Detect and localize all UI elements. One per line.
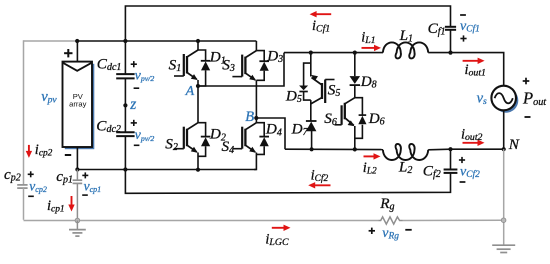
diode D3 bbox=[259, 60, 269, 62]
wire Cdc chain upper bbox=[124, 41, 126, 74]
wire cp1 branch lower bbox=[76, 183, 78, 220]
wire L2 to Cf2 node bbox=[428, 148, 450, 151]
wire Cf1 node to vs bbox=[451, 53, 504, 86]
label cp1 minus bbox=[82, 194, 88, 196]
wire top outer loop (iCf1 path) bbox=[125, 6, 450, 41]
label vs minus bbox=[525, 116, 531, 118]
arrow iCf2 bbox=[314, 184, 331, 186]
wire D3 branch bbox=[256, 51, 264, 62]
label PV plus bbox=[64, 52, 72, 54]
capacitor Cdc1 bbox=[116, 73, 134, 75]
diode D6 bbox=[359, 114, 367, 116]
wire Cdc2 to bottom bus bbox=[124, 136, 126, 169]
label Cf2 plus bbox=[459, 159, 465, 161]
wire branch1 mid bbox=[310, 100, 312, 121]
wire gray left rail lower bbox=[23, 188, 25, 220]
wire S3 emitter to B bbox=[255, 80, 257, 118]
label cp1 plus bbox=[82, 174, 88, 176]
arrow icp1 bbox=[71, 196, 73, 206]
node Cdc chain top junction bbox=[123, 39, 127, 43]
wire PV- terminal bbox=[76, 147, 78, 170]
arrow iCf1 bbox=[315, 13, 331, 15]
diode D5 bbox=[299, 86, 308, 91]
transistor S2 bbox=[183, 127, 185, 149]
wire D4 branch bbox=[256, 123, 264, 137]
transistor S3 bbox=[241, 55, 243, 77]
transistor S5 bbox=[321, 83, 323, 99]
PV array shadow bbox=[65, 64, 95, 149]
wire branch2 top stub bbox=[354, 53, 356, 77]
diode D8 bbox=[350, 76, 361, 84]
wire DC+ bus bbox=[77, 40, 256, 42]
wire S3 collector bbox=[255, 41, 257, 51]
inductor L1 bbox=[383, 42, 428, 58]
node z bbox=[123, 103, 127, 107]
node S1 collector junction bbox=[196, 39, 200, 43]
wire branch1 bottom stub bbox=[311, 131, 313, 150]
label Cdc2 minus bbox=[134, 144, 140, 146]
wire D1 branch bbox=[198, 50, 206, 61]
wire L1 to Cf1 node bbox=[428, 52, 450, 54]
wire B to bypass lower rail bbox=[256, 118, 285, 149]
diode D7 bbox=[306, 120, 317, 122]
diode D4 bbox=[259, 136, 269, 138]
wire Cf2 upper lead bbox=[450, 149, 452, 169]
label Cdc1 minus bbox=[134, 87, 140, 89]
wire gray left rail upper bbox=[23, 40, 25, 184]
wire gray bottom rail left bbox=[24, 220, 379, 222]
wire A to S2 bbox=[197, 86, 199, 123]
capacitor Cf1 bbox=[445, 26, 456, 28]
node S2 emitter junction bbox=[196, 168, 200, 172]
wire N to ground bbox=[503, 149, 505, 245]
capacitor Cdc2 bbox=[116, 131, 134, 133]
wire cp1 branch upper bbox=[76, 170, 78, 181]
wire gray top segment bbox=[24, 40, 78, 42]
svg-text:N: N bbox=[508, 136, 520, 153]
diode D2 bbox=[201, 136, 211, 138]
label Cf1 minus bbox=[460, 14, 466, 16]
wire B to S4 bbox=[255, 118, 257, 123]
wire gray bottom rail right bbox=[403, 219, 504, 221]
wire bottom loop (iCf2 path) bbox=[125, 170, 450, 194]
node bypass branch2 bottom bbox=[353, 147, 357, 151]
capacitor Cf2 bbox=[444, 169, 458, 171]
node PV- junction bbox=[75, 167, 79, 171]
wire D5 loop bbox=[304, 63, 311, 85]
label Cf1 plus bbox=[460, 38, 466, 40]
capacitor cp2 bbox=[17, 184, 27, 186]
resistor Rg bbox=[378, 217, 402, 224]
node cp1 ground junction bbox=[75, 218, 80, 223]
wire Cf1 lower lead bbox=[450, 30, 452, 53]
node Cf2 junction bbox=[448, 147, 452, 151]
node Cf1 junction bbox=[448, 51, 452, 55]
diode D1 bbox=[201, 60, 211, 62]
svg-text:z: z bbox=[129, 96, 136, 113]
svg-text:A: A bbox=[185, 84, 195, 99]
svg-text:B: B bbox=[245, 109, 254, 125]
node A bbox=[196, 84, 200, 88]
transistor S1 bbox=[183, 54, 185, 76]
wire DC- bus bbox=[77, 169, 256, 171]
wire D8 to S6 bbox=[354, 86, 356, 98]
arrow iout1 bbox=[463, 60, 480, 62]
wire S1 collector bbox=[197, 41, 199, 50]
wire PV+ terminal bbox=[76, 41, 78, 62]
label PV minus bbox=[65, 154, 71, 156]
source vs shadow bbox=[494, 88, 519, 113]
label Cdc1 plus bbox=[131, 63, 137, 65]
wire S4 emitter to bus corner bbox=[254, 153, 256, 170]
capacitor cp1 bbox=[73, 179, 83, 181]
wire lower rail to N bbox=[451, 148, 504, 150]
arrow iL1 bbox=[362, 47, 376, 49]
node PV+ junction bbox=[75, 39, 79, 43]
wire bypass top rail bbox=[284, 52, 383, 54]
label Cdc2 plus bbox=[131, 122, 137, 124]
wire bypass bottom rail bbox=[285, 148, 383, 150]
label vRg plus bbox=[369, 230, 375, 232]
wire A to bypass rail bbox=[198, 53, 284, 86]
arrow iL2 bbox=[364, 155, 376, 157]
wire vs to N bbox=[503, 110, 505, 149]
label vs plus bbox=[523, 80, 530, 82]
PV array bbox=[63, 62, 93, 147]
wire Cdc1 to z bbox=[124, 78, 126, 132]
wire branch1 top stub bbox=[310, 53, 312, 77]
label cp2 minus bbox=[28, 195, 34, 197]
wire S2 emitter to bus bbox=[197, 153, 199, 170]
arrow iLGC bbox=[272, 227, 285, 229]
node Cdc chain bottom junction bbox=[123, 167, 127, 171]
transistor S6 bbox=[344, 103, 346, 120]
node B bbox=[254, 116, 258, 120]
arrow icp2 bbox=[28, 145, 30, 153]
label Cf2 minus bbox=[460, 181, 466, 183]
label vRg minus bbox=[405, 229, 411, 231]
wire D6 loop bbox=[355, 98, 363, 115]
inductor L2 bbox=[383, 144, 428, 160]
wire D2 branch bbox=[198, 123, 206, 137]
transistor S4 bbox=[241, 127, 243, 149]
ground right bbox=[492, 244, 515, 246]
node right ground junction bbox=[501, 218, 506, 223]
wire S1 emitter to A bbox=[197, 80, 199, 86]
label cp2 plus bbox=[28, 173, 34, 175]
source vs bbox=[491, 86, 516, 111]
wire S6 emitter to rail bbox=[354, 126, 356, 149]
node N bbox=[502, 147, 506, 151]
node bypass branch1 bottom bbox=[310, 147, 314, 151]
ground left bbox=[76, 221, 78, 230]
svg-text:array: array bbox=[69, 99, 87, 108]
arrow iout2 bbox=[463, 142, 480, 144]
node bypass branch1 top bbox=[309, 51, 313, 55]
node bypass branch2 top bbox=[353, 51, 357, 55]
